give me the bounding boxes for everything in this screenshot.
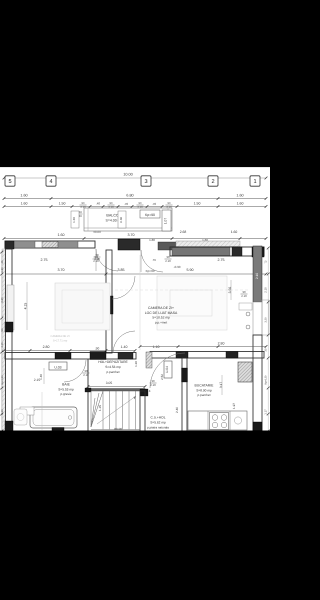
sheet top hairline: [0, 167, 270, 169]
svg-text:BUCATARIE: BUCATARIE: [195, 384, 215, 388]
right wall lower segment: [253, 335, 262, 433]
svg-text:Kp=90: Kp=90: [145, 213, 155, 217]
svg-text:1.40: 1.40: [121, 345, 128, 349]
left wall radiator strip: [7, 285, 14, 330]
svg-text:1.50: 1.50: [59, 202, 66, 206]
svg-text:2.80: 2.80: [218, 342, 225, 346]
svg-text:1.07: 1.07: [164, 218, 168, 224]
right exterior wall dark segment: [253, 246, 262, 302]
stairs walk line: [97, 396, 136, 424]
svg-text:2.10: 2.10: [241, 294, 247, 298]
svg-text:S=17.71 mp: S=17.71 mp: [53, 340, 68, 343]
hatched parapet band: [176, 241, 240, 247]
svg-text:BAIE: BAIE: [62, 383, 70, 387]
grid bubble 5: [5, 176, 15, 186]
balcon outline: [84, 208, 172, 231]
stairs bottom edge: [91, 429, 140, 431]
svg-text:5: 5: [8, 179, 11, 185]
stairs straight flight treads: [102, 391, 104, 430]
top wall right segment: [170, 247, 264, 256]
svg-text:1.60: 1.60: [58, 233, 65, 237]
svg-text:1.15: 1.15: [98, 405, 102, 411]
svg-text:p.parchet: p.parchet: [198, 393, 211, 397]
left margin tick column: [0, 251, 3, 254]
soba hatched block: [238, 362, 252, 382]
right margin tick column: [267, 247, 270, 250]
svg-text:HOL+DEPOZITARE: HOL+DEPOZITARE: [98, 360, 128, 364]
wall cs+hol / bucatarie: [182, 358, 187, 433]
svg-text:.70: .70: [152, 202, 157, 206]
svg-text:1.40: 1.40: [39, 374, 43, 380]
svg-text:1.60: 1.60: [237, 202, 244, 206]
bottom black band: [0, 431, 270, 600]
svg-text:CAMERA DE ZI: CAMERA DE ZI: [51, 335, 70, 338]
svg-text:2: 2: [211, 179, 214, 185]
svg-text:1.60: 1.60: [21, 202, 28, 206]
svg-text:U.04: U.04: [165, 366, 169, 373]
svg-text:1.60: 1.60: [231, 230, 238, 234]
svg-text:2.10: 2.10: [94, 257, 100, 261]
grid bubble 3: [141, 176, 151, 186]
wall left of stairs (baie east wall): [87, 359, 89, 433]
svg-text:Kp=120: Kp=120: [265, 375, 268, 385]
svg-text:1.80: 1.80: [0, 267, 4, 273]
svg-text:LOC DE LUAT MASA: LOC DE LUAT MASA: [145, 311, 178, 315]
rotated dim 1.07 box: [162, 210, 171, 231]
svg-text:3.70: 3.70: [128, 233, 135, 237]
svg-text:p.gresie: p.gresie: [60, 392, 71, 396]
bathtub: [30, 407, 77, 428]
right wall bottom block: [253, 422, 262, 431]
svg-text:p.piatra naturala: p.piatra naturala: [147, 425, 169, 429]
dim row sub-dims: [4, 206, 266, 208]
block right of door2: [158, 242, 178, 250]
svg-text:2.15: 2.15: [1, 342, 4, 348]
svg-text:.70: .70: [124, 202, 129, 206]
dark block right wall: [232, 247, 242, 256]
svg-text:U.03: U.03: [54, 365, 61, 369]
left wall bottom corner block: [5, 421, 13, 431]
svg-text:±0.00: ±0.00: [93, 230, 101, 234]
svg-text:3.17: 3.17: [219, 382, 223, 388]
left exterior wall: [2, 249, 6, 433]
svg-text:1.30: 1.30: [72, 217, 76, 223]
svg-text:3.70: 3.70: [58, 268, 65, 272]
svg-text:3.85: 3.85: [0, 297, 4, 303]
svg-text:2.68: 2.68: [180, 230, 187, 234]
kitchen sink circle: [234, 417, 241, 424]
svg-text:90: 90: [168, 202, 171, 205]
svg-text:2.10: 2.10: [255, 273, 259, 279]
baie wc fixture: [14, 409, 27, 425]
mid wall right: [150, 352, 264, 359]
svg-text:.40: .40: [96, 202, 101, 206]
door arc top of camera: [112, 276, 135, 299]
svg-text:1.10: 1.10: [153, 345, 160, 349]
svg-text:6.80: 6.80: [126, 194, 133, 198]
dining furniture: [157, 276, 227, 330]
svg-text:3.85: 3.85: [118, 268, 125, 272]
grid bubble 4: [46, 176, 56, 186]
tub faucet: [68, 416, 72, 420]
top wall left segment: [5, 241, 95, 248]
svg-text:U.02: U.02: [119, 217, 123, 223]
U.03 label: [49, 362, 67, 370]
mid wall left: [5, 353, 136, 360]
chimney block: [118, 239, 140, 250]
svg-text:2.10: 2.10: [150, 383, 156, 387]
svg-text:5.90: 5.90: [187, 268, 194, 272]
svg-text:CAMERA DE ZI+: CAMERA DE ZI+: [148, 306, 174, 310]
wall hol/stairs horizontal: [88, 389, 145, 392]
svg-text:.90: .90: [95, 347, 100, 351]
svg-text:90x90: 90x90: [114, 427, 123, 431]
central wall black block: [105, 296, 113, 314]
svg-text:S=8.90 mp: S=8.90 mp: [196, 389, 212, 393]
svg-text:-0.90: -0.90: [174, 265, 181, 269]
Kp=90 box: [140, 210, 160, 218]
stairs winder fan: [91, 398, 95, 427]
kitchen counter: [188, 411, 247, 430]
U.04 label vertical: [164, 361, 172, 378]
svg-text:2.75: 2.75: [41, 258, 48, 262]
plan sheet white: [0, 167, 270, 431]
symbols right: [246, 312, 250, 316]
svg-text:1.60: 1.60: [236, 194, 243, 198]
svg-text:2.80: 2.80: [43, 345, 50, 349]
svg-text:90: 90: [82, 202, 85, 205]
svg-text:S=4.56 mp: S=4.56 mp: [105, 365, 121, 369]
grid bubble 1: [250, 176, 260, 186]
door 2 opening + arc: [141, 250, 163, 272]
door arc into living (up-left): [113, 331, 135, 353]
svg-text:3.05: 3.05: [106, 381, 113, 385]
overall dim 10.00: [4, 177, 266, 179]
vert dim 3.56: [230, 280, 232, 300]
svg-text:1.97: 1.97: [232, 403, 236, 409]
right wall window + protrusion: [253, 302, 262, 335]
left wall black block mid: [5, 322, 13, 332]
svg-text:2.75: 2.75: [218, 258, 225, 262]
svg-text:90: 90: [110, 202, 113, 205]
svg-text:p.p.+met: p.p.+met: [155, 320, 167, 324]
svg-text:1: 1: [253, 179, 256, 185]
svg-text:2.40: 2.40: [175, 407, 179, 413]
svg-text:2.10: 2.10: [165, 259, 171, 263]
door arc hol (down-left from 86,360): [64, 360, 86, 382]
svg-text:S=5.62 mp: S=5.62 mp: [150, 421, 166, 425]
svg-text:1.20: 1.20: [134, 361, 138, 367]
door 1 opening + arc: [96, 249, 118, 271]
door arc U.04: [150, 353, 185, 388]
svg-text:C.S.+HOL: C.S.+HOL: [150, 416, 165, 420]
svg-text:3.20: 3.20: [265, 317, 268, 323]
svg-text:90: 90: [0, 328, 4, 332]
wall between stairs and cs+hol: [140, 391, 145, 433]
svg-text:Kp=90: Kp=90: [146, 269, 155, 273]
svg-text:3: 3: [144, 179, 147, 185]
svg-text:p.parchet: p.parchet: [107, 370, 120, 374]
rotated 1.30 box left of balcon: [71, 211, 79, 228]
central vertical wall: [106, 250, 112, 353]
svg-text:10.00: 10.00: [123, 173, 133, 177]
grid bubble 2: [208, 176, 218, 186]
dim row 1.60/6.80/1.60: [4, 198, 266, 200]
svg-text:1.17: 1.17: [264, 409, 268, 415]
hatch column mid: [146, 352, 152, 368]
svg-text:S=18.52 mp: S=18.52 mp: [152, 316, 170, 320]
svg-text:Hp=120: Hp=120: [1, 375, 4, 385]
svg-text:1.60: 1.60: [20, 194, 27, 198]
right corner block: [252, 247, 264, 257]
svg-text:4: 4: [49, 179, 52, 185]
svg-text:2.52: 2.52: [160, 374, 164, 380]
baie small box label: [20, 407, 34, 415]
faint room divider line: [139, 255, 141, 350]
svg-text:4.15: 4.15: [24, 303, 28, 310]
camera top dim line: [4, 273, 266, 275]
svg-text:.70: .70: [152, 258, 156, 262]
svg-text:2.10: 2.10: [264, 287, 268, 293]
vert dim 4.15: [26, 282, 28, 330]
svg-text:90: 90: [139, 202, 142, 205]
living furniture: [55, 283, 110, 330]
svg-text:1.50: 1.50: [194, 202, 201, 206]
block below tub: [52, 428, 64, 432]
left corner block: [5, 241, 14, 249]
svg-text:S=5.53 mp: S=5.53 mp: [58, 388, 74, 392]
walk line arrow: [134, 396, 137, 399]
kitchen stove 4 burners: [210, 413, 229, 430]
faint dashed line camera: [115, 289, 250, 291]
